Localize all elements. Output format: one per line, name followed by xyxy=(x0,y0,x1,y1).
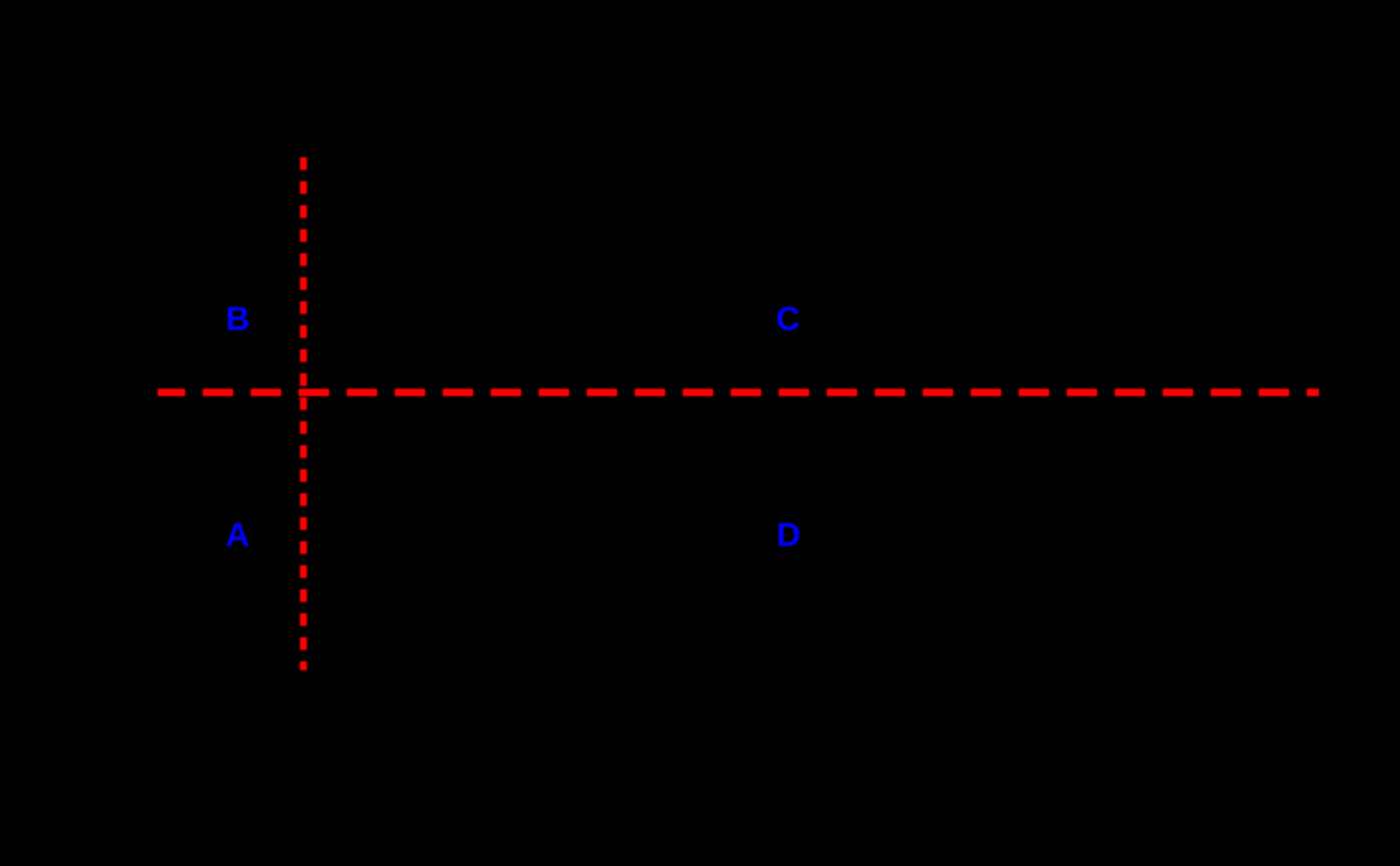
svg-text:C: C xyxy=(776,301,800,338)
horizontal red dashed axis xyxy=(158,389,1319,396)
svg-text:A: A xyxy=(226,517,250,554)
svg-text:B: B xyxy=(226,301,250,338)
vertical red dashed axis xyxy=(300,157,307,670)
svg-text:D: D xyxy=(777,517,801,554)
